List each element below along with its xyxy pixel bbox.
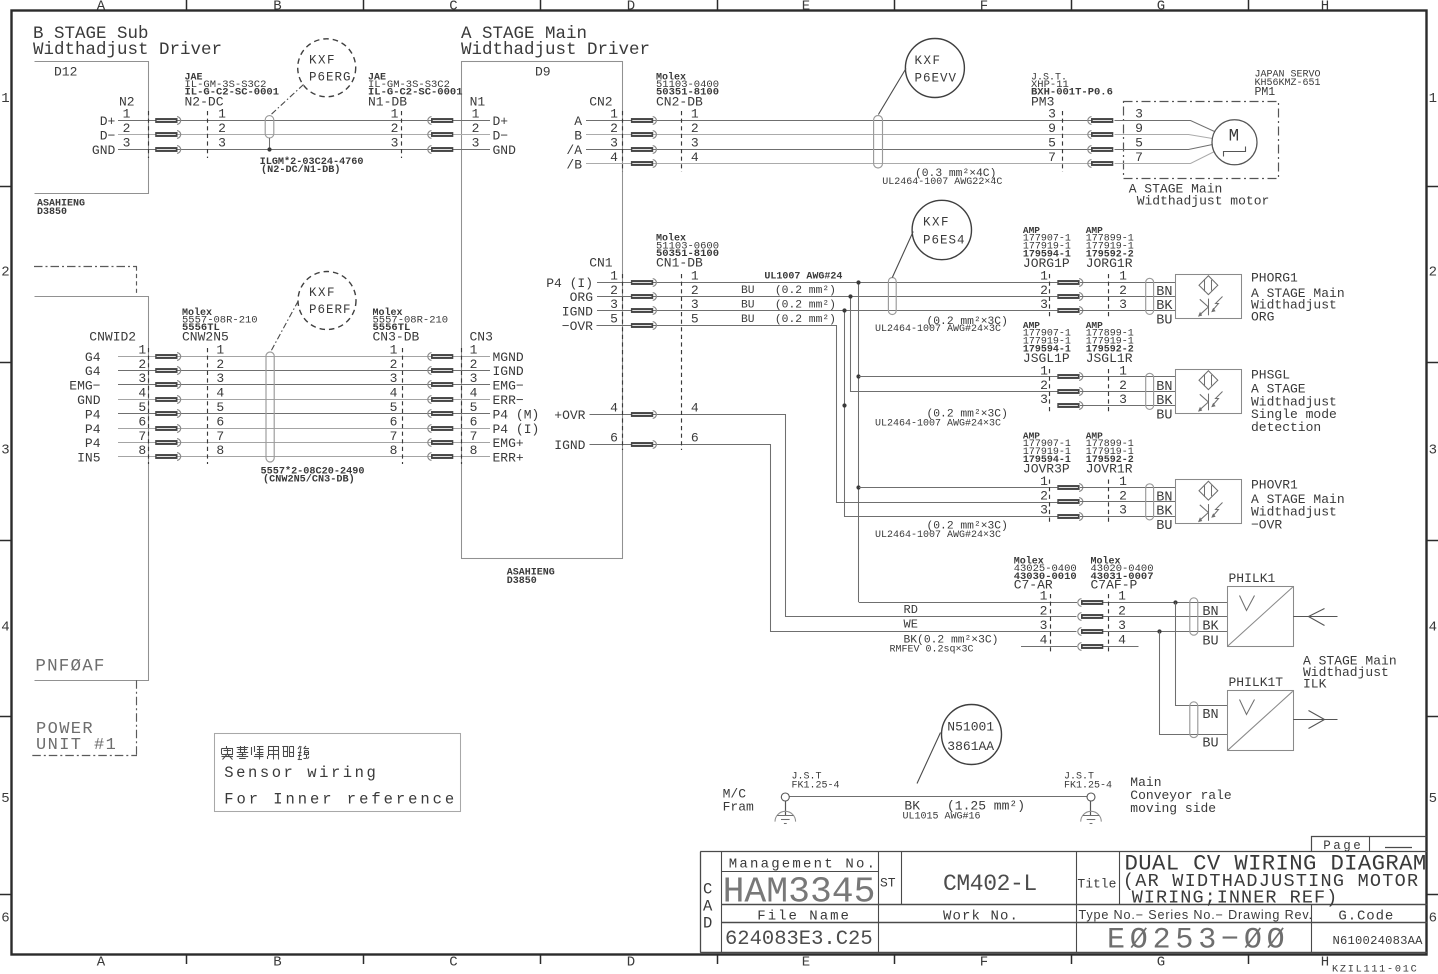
svg-text:7: 7 [216, 429, 224, 444]
wire CN1 pin4 +OVR down to C7-AR pin2 [590, 415, 1077, 617]
svg-text:1: 1 [691, 106, 699, 121]
svg-text:G: G [1157, 0, 1165, 14]
svg-text:/A: /A [566, 143, 582, 158]
arrow outgoing light from PHILK1T [1293, 711, 1337, 729]
svg-text:C7AF-P: C7AF-P [1091, 578, 1138, 593]
svg-text:4: 4 [610, 401, 618, 416]
page box [1312, 837, 1427, 853]
svg-text:2: 2 [123, 121, 131, 136]
cable spec (0.2mm2x3C) for ORG sensor cable [875, 316, 1008, 335]
svg-text:PHOVR1: PHOVR1 [1251, 478, 1298, 493]
svg-text:3: 3 [390, 371, 398, 386]
svg-text:D: D [627, 955, 635, 971]
svg-text:RMFEV 0.2sq×3C: RMFEV 0.2sq×3C [890, 645, 974, 656]
svg-text:CNWID2: CNWID2 [89, 330, 136, 345]
svg-text:(N2-DC/N1-DB): (N2-DC/N1-DB) [261, 164, 340, 176]
svg-text:ERR−: ERR− [493, 393, 524, 408]
pigtail capsule PHILK1 [1190, 598, 1198, 635]
svg-text:1: 1 [1119, 268, 1127, 283]
cable spec (0.3mm2x4C) UL2464-1007 AWG22x4C [882, 168, 1002, 188]
svg-text:3: 3 [691, 136, 699, 151]
balloon KXF P6EVV [878, 39, 964, 115]
svg-text:6: 6 [1429, 911, 1437, 927]
connector C7AF-P (Molex 43020-0400 43031-0007) [1091, 556, 1154, 655]
svg-text:4: 4 [216, 386, 224, 401]
label PHOVR1 A STAGE Main Widthadjust -OVR [1251, 478, 1345, 533]
title block [700, 852, 1427, 953]
svg-text:B: B [273, 955, 281, 971]
wire CN1 pin6 IGND down to C7-AR pin3 [590, 445, 1077, 632]
svg-text:D12: D12 [54, 65, 77, 80]
svg-text:5: 5 [691, 312, 699, 327]
svg-text:D+: D+ [493, 114, 509, 129]
svg-text:Widthadjust Driver: Widthadjust Driver [33, 40, 222, 60]
svg-text:1: 1 [1118, 589, 1126, 604]
svg-text:CM402-L: CM402-L [943, 871, 1037, 897]
svg-text:4: 4 [691, 401, 699, 416]
svg-text:2: 2 [1040, 603, 1048, 618]
svg-text:P4 (I): P4 (I) [493, 422, 540, 437]
svg-text:6: 6 [138, 414, 146, 429]
svg-text:ERR+: ERR+ [493, 451, 524, 466]
balloon KXF P6ES4 [892, 200, 971, 277]
svg-text:B: B [574, 128, 582, 143]
svg-text:WE: WE [904, 618, 918, 632]
svg-text:P4: P4 [85, 422, 101, 437]
svg-text:N51001: N51001 [947, 720, 994, 735]
sensor pigtail capsule JSGL1R [1146, 373, 1154, 409]
wire CNWID2 pin8 IN5 to CN3 pin8 ERR+ [118, 456, 490, 458]
shield drain junction to GND wire [267, 138, 271, 152]
ground symbol M/C frame [775, 801, 796, 824]
svg-text:G4: G4 [85, 350, 101, 365]
svg-text:PHORG1: PHORG1 [1251, 271, 1298, 286]
svg-text:H: H [1321, 0, 1329, 14]
svg-text:File Name: File Name [757, 909, 851, 925]
wire colors BN BU into PHILK1T [1202, 708, 1218, 752]
svg-text:3: 3 [1040, 392, 1048, 407]
wire CN1 pin3 IGND to JORG1P pin3 [597, 310, 1057, 312]
svg-text:FK1.25-4: FK1.25-4 [792, 781, 840, 792]
shield capsule on sensor cable CN1/JORG [888, 278, 896, 315]
svg-text:EMG−: EMG− [493, 379, 524, 394]
wire labels RD WE BK on C7 harness [890, 603, 999, 656]
svg-text:BK: BK [1202, 620, 1219, 635]
label PHORG1 A STAGE Main Widthadjust ORG [1251, 271, 1345, 325]
connector CN3 pins on D9 [470, 330, 540, 466]
svg-text:P6ERF: P6ERF [309, 303, 352, 317]
balloon KXF P6ERG [270, 39, 356, 116]
svg-text:2: 2 [1119, 378, 1127, 393]
svg-text:4: 4 [1, 620, 9, 636]
svg-text:KXF: KXF [923, 216, 950, 230]
svg-text:7: 7 [138, 429, 146, 444]
svg-text:BN: BN [1156, 285, 1172, 300]
svg-text:IGND: IGND [562, 305, 593, 320]
svg-text:UL2464-1007 AWG#24×3C: UL2464-1007 AWG#24×3C [875, 324, 1001, 335]
svg-text:3: 3 [1118, 618, 1126, 633]
svg-text:3: 3 [216, 371, 224, 386]
wire CN1 pin2 ORG to JORG1P pin2 [597, 296, 1057, 298]
svg-text:GND: GND [77, 393, 101, 408]
svg-text:1: 1 [610, 268, 618, 283]
note box: sensor wiring for inner reference [215, 734, 461, 812]
sensor pigtail capsule JORG1R [1146, 278, 1154, 314]
svg-text:1: 1 [218, 106, 226, 121]
svg-text:5: 5 [216, 400, 224, 415]
svg-text:P4 (M): P4 (M) [493, 407, 540, 422]
svg-text:BU (0.2 mm²): BU (0.2 mm²) [741, 285, 836, 297]
svg-text:BK: BK [1156, 299, 1173, 314]
svg-text:BU: BU [1156, 519, 1172, 534]
cable spec (0.2mm2x3C) for SGL sensor cable [875, 409, 1008, 430]
svg-text:1: 1 [1119, 474, 1127, 489]
svg-text:1: 1 [610, 106, 618, 121]
svg-text:2: 2 [610, 121, 618, 136]
svg-text:BK: BK [1156, 394, 1173, 409]
svg-text:2: 2 [1118, 603, 1126, 618]
svg-text:Fram: Fram [723, 800, 754, 815]
cable label 5557*2-08C20-2490 (CNW2N5/CN3-DB) [261, 466, 365, 486]
svg-text:Title: Title [1077, 877, 1116, 892]
svg-text:4: 4 [138, 386, 146, 401]
svg-text:PM1: PM1 [1255, 86, 1276, 99]
svg-text:5: 5 [470, 400, 478, 415]
svg-text:BU: BU [1156, 314, 1172, 329]
connector N1-DB (JAE IL-GM-3S-S3C2 IL-G-C2-SC-0001) [368, 73, 463, 159]
branch wire ORG vertical to JSGL1P pin2 [848, 294, 1057, 391]
wire C7 pin2 RD/BK to PHILK1 [1103, 616, 1228, 618]
svg-text:3: 3 [610, 297, 618, 312]
svg-text:N610024083AA: N610024083AA [1333, 934, 1424, 948]
svg-text:G.Code: G.Code [1338, 909, 1394, 925]
svg-text:BU (0.2 mm²): BU (0.2 mm²) [741, 314, 836, 326]
svg-text:A: A [97, 955, 106, 971]
svg-text:BU: BU [1156, 409, 1172, 424]
label M/C Fram [723, 787, 754, 815]
svg-text:M: M [1229, 126, 1240, 146]
svg-text:BU (0.2 mm²): BU (0.2 mm²) [741, 300, 836, 312]
connector CNWID2 pins on PNF0AF [69, 330, 146, 466]
svg-text:7: 7 [1048, 150, 1056, 165]
svg-text:UL2464-1007 AWG#24×3C: UL2464-1007 AWG#24×3C [875, 419, 1001, 430]
photo interlock sensor PHILK1 [1228, 571, 1294, 647]
svg-text:2: 2 [1119, 488, 1127, 503]
wire CN1 pin1 P4(I) to JORG1P pin1 [597, 282, 1057, 284]
svg-text:Widthadjust Driver: Widthadjust Driver [461, 40, 650, 60]
photo interlock sensor PHILK1T [1228, 675, 1294, 751]
svg-text:4: 4 [1118, 633, 1126, 648]
svg-text:7: 7 [1135, 150, 1143, 165]
svg-text:P4: P4 [85, 436, 101, 451]
svg-text:2: 2 [1040, 488, 1048, 503]
wire N2 pin2 D− to N1 pin2 [118, 134, 490, 136]
svg-text:3: 3 [1040, 503, 1048, 518]
balloon N51001 3861AA [917, 705, 1002, 784]
svg-text:E: E [802, 0, 810, 14]
svg-text:KXF: KXF [309, 286, 336, 300]
svg-text:PHSGL: PHSGL [1251, 368, 1290, 383]
label PHSGL A STAGE Widthadjust Single mode detection [1251, 368, 1337, 436]
svg-text:3861AA: 3861AA [947, 739, 994, 754]
svg-text:(CNW2N5/CN3-DB): (CNW2N5/CN3-DB) [263, 474, 355, 486]
svg-text:1: 1 [391, 106, 399, 121]
wire colors BN BK BU into sensor SGL [1156, 380, 1173, 424]
connector CN2-DB (Molex 51103-0400 50351-8100) [623, 72, 720, 173]
svg-text:F: F [980, 0, 988, 14]
svg-text:3: 3 [1119, 503, 1127, 518]
management no cell [723, 857, 878, 913]
ground symbol conveyor rail [1081, 801, 1102, 824]
svg-text:BN: BN [1202, 605, 1218, 620]
svg-text:3: 3 [1119, 297, 1127, 312]
connector CN2 pins on D9 [566, 95, 618, 173]
svg-text:EØ253−ØØ: EØ253−ØØ [1107, 924, 1289, 958]
wire CN2 pin2 B to PM3 pin9 [586, 134, 1091, 136]
wire CNWID2 pin1 G4 to CN3 pin1 MGND [118, 356, 490, 358]
svg-text:UL1015 AWG#16: UL1015 AWG#16 [903, 812, 981, 823]
svg-text:G4: G4 [85, 364, 101, 379]
svg-text:CN2: CN2 [589, 95, 612, 110]
label A STAGE Main Widthadjust motor [1129, 182, 1270, 209]
svg-text:N1-DB: N1-DB [368, 95, 407, 110]
connector N2 pins on D12 [92, 95, 135, 159]
svg-text:3: 3 [1040, 297, 1048, 312]
svg-text:4: 4 [610, 150, 618, 165]
svg-text:1: 1 [1119, 363, 1127, 378]
svg-text:3: 3 [472, 136, 480, 151]
svg-text:detection: detection [1251, 420, 1321, 435]
svg-text:PHILK1: PHILK1 [1229, 571, 1276, 586]
svg-text:1: 1 [1040, 589, 1048, 604]
balloon KXF P6ERF [271, 272, 357, 353]
svg-text:6: 6 [610, 430, 618, 445]
connector CN3-DB (Molex 5557-08R-210 5556TL) [373, 307, 462, 464]
svg-text:B: B [273, 0, 281, 14]
svg-text:−OVR: −OVR [562, 319, 593, 334]
connector JSGL1P (AMP 177907-1 177919-1 179594-1) [1023, 320, 1083, 414]
label A STAGE Main Widthadjust ILK [1303, 654, 1397, 692]
svg-text:E: E [802, 955, 810, 971]
svg-text:3: 3 [123, 136, 131, 151]
svg-text:A: A [97, 0, 106, 14]
svg-text:−OVR: −OVR [1251, 517, 1282, 532]
connector PM3 (J.S.T. XHP-11 BXH-001T-P0.6) [1031, 73, 1143, 173]
svg-text:4: 4 [1429, 620, 1437, 636]
svg-text:D3850: D3850 [507, 576, 537, 587]
svg-text:3: 3 [1048, 106, 1056, 121]
svg-text:1: 1 [1040, 474, 1048, 489]
svg-text:2: 2 [610, 283, 618, 298]
svg-text:BK: BK [1156, 505, 1173, 520]
svg-text:3: 3 [1040, 618, 1048, 633]
svg-text:PHILK1T: PHILK1T [1229, 675, 1284, 690]
svg-text:C: C [449, 955, 457, 971]
wire colors BN BK BU into PHILK1 [1202, 605, 1219, 650]
connector N2-DC (JAE IL-GM-3S-S3C2 IL-G-C2-SC-0001) [149, 73, 280, 159]
svg-text:3: 3 [218, 136, 226, 151]
svg-text:3: 3 [1135, 106, 1143, 121]
svg-text:6: 6 [691, 430, 699, 445]
branch wire IGND vertical to JSGL1P/JOVR3P pin3 [842, 308, 1057, 516]
svg-text:FK1.25-4: FK1.25-4 [1064, 781, 1112, 792]
svg-text:8: 8 [470, 443, 478, 458]
driver box D9 (A stage main widthadjust driver) [462, 62, 623, 588]
connector CNW2N5 (Molex 5557-08R-210 5556TL) [149, 307, 258, 464]
svg-text:1: 1 [123, 106, 131, 121]
svg-text:4: 4 [390, 386, 398, 401]
svg-text:2: 2 [1040, 378, 1048, 393]
svg-text:UL2464-1007 AWG22×4C: UL2464-1007 AWG22×4C [882, 177, 1002, 188]
svg-text:7: 7 [470, 429, 478, 444]
svg-text:1: 1 [1, 91, 9, 107]
svg-text:3: 3 [138, 371, 146, 386]
cable spec (0.2mm2x3C) for OVR sensor cable [875, 521, 1008, 542]
wire CNWID2 pin6 P4 to CN3 pin6 P4 (I) [118, 428, 490, 430]
svg-text:D: D [703, 915, 712, 933]
power unit box PNF0AF [34, 267, 149, 681]
svg-text:6: 6 [1, 911, 9, 927]
svg-text:H: H [1321, 955, 1329, 971]
svg-text:P4: P4 [85, 407, 101, 422]
svg-text:1: 1 [470, 342, 478, 357]
svg-text:BN: BN [1202, 708, 1218, 723]
svg-text:KXF: KXF [915, 54, 942, 68]
bus wire P4 vertical feeding JSGL1P/JOVR3P/C7-AR pin1 [856, 280, 1077, 602]
arrow incoming light to PHILK1 [1293, 609, 1337, 626]
wire CNWID2 pin5 P4 to CN3 pin5 P4 (M) [118, 413, 490, 415]
svg-text:624083E3.C25: 624083E3.C25 [725, 928, 873, 951]
wire CN2 pin1 A to PM3 pin3 [586, 120, 1091, 122]
label JAPAN SERVO KH56KMZ-651 PM1 [1255, 70, 1321, 100]
svg-text:UNIT #1: UNIT #1 [36, 736, 117, 755]
svg-text:P4 (I): P4 (I) [546, 276, 593, 291]
svg-text:Widthadjust motor: Widthadjust motor [1137, 194, 1270, 209]
svg-text:D−: D− [493, 128, 509, 143]
driver box D12 (B stage sub widthadjust driver) [35, 62, 149, 219]
connector JSGL1R (AMP 177899-1 177919-1 179592-2) [1080, 320, 1176, 414]
svg-text:+OVR: +OVR [554, 408, 585, 423]
power unit #1 boundary (dash-dot) [32, 680, 137, 755]
connector JORG1R (AMP 177899-1 177919-1 179592-2) [1080, 225, 1176, 319]
svg-text:A: A [574, 114, 582, 129]
svg-text:D: D [627, 0, 635, 14]
svg-text:5: 5 [1429, 791, 1437, 807]
svg-text:MGND: MGND [493, 350, 524, 365]
photo sensor PHOVR1 box [1176, 480, 1242, 524]
svg-text:5: 5 [610, 312, 618, 327]
wire C7 pin3 WE/BU to PHILK1 [1103, 631, 1228, 633]
svg-text:D−: D− [100, 128, 116, 143]
svg-text:ORG: ORG [1251, 309, 1274, 324]
connector CN1 pins on D9 [546, 256, 618, 453]
svg-text:BU: BU [1202, 736, 1218, 751]
wire colors BN BK BU into sensor OVR [1156, 490, 1173, 534]
svg-text:4: 4 [691, 150, 699, 165]
svg-text:WIRING;INNER REF): WIRING;INNER REF) [1132, 888, 1339, 909]
svg-text:EMG+: EMG+ [493, 436, 524, 451]
svg-text:3: 3 [1429, 443, 1437, 459]
svg-text:6: 6 [216, 414, 224, 429]
G.Code cell [1333, 909, 1424, 949]
svg-text:KZIL111-01C: KZIL111-01C [1332, 964, 1419, 974]
svg-text:2: 2 [1119, 283, 1127, 298]
wire colors BN BK BU into sensor ORG [1156, 285, 1173, 329]
svg-text:UL1007 AWG#24: UL1007 AWG#24 [764, 272, 842, 283]
svg-text:D+: D+ [100, 114, 116, 129]
svg-text:IGND: IGND [554, 438, 585, 453]
wire JOVR3P pin1 from P4 bus [859, 487, 1057, 489]
svg-text:7: 7 [390, 429, 398, 444]
svg-text:EMG−: EMG− [69, 379, 100, 394]
svg-text:2: 2 [216, 357, 224, 372]
label B STAGE Sub Widthadjust Driver [33, 24, 222, 60]
svg-text:UL2464-1007 AWG#24×3C: UL2464-1007 AWG#24×3C [875, 530, 1001, 541]
svg-text:2: 2 [691, 283, 699, 298]
svg-text:HAM3345: HAM3345 [723, 872, 876, 913]
svg-text:BN: BN [1156, 380, 1172, 395]
cable label ILGM*2-03C24-4760 (N2-DC/N1-DB) [260, 156, 364, 176]
svg-text:1: 1 [1040, 363, 1048, 378]
svg-text:2: 2 [391, 121, 399, 136]
svg-text:5: 5 [138, 400, 146, 415]
svg-text:IGND: IGND [493, 364, 524, 379]
svg-text:1: 1 [390, 342, 398, 357]
junction BU wire to PHILK1T [1157, 629, 1227, 734]
wire CNWID2 pin4 GND to CN3 pin4 ERR− [118, 399, 490, 401]
shield capsule on cable N2-DC/N1-DB [265, 116, 274, 138]
file name cell [725, 909, 873, 952]
photo sensor PHSGL box [1176, 370, 1242, 414]
svg-text:BN: BN [1156, 490, 1172, 505]
svg-text:P6ERG: P6ERG [309, 71, 352, 85]
connector JORG1P (AMP 177907-1 177919-1 179594-1) [1023, 225, 1083, 319]
svg-text:6: 6 [470, 414, 478, 429]
photo sensor PHORG1 box [1176, 275, 1242, 319]
svg-text:1: 1 [138, 342, 146, 357]
svg-text:8: 8 [390, 443, 398, 458]
svg-text:3: 3 [391, 136, 399, 151]
wire CNWID2 pin7 P4 to CN3 pin7 EMG+ [118, 442, 490, 444]
svg-text:D3850: D3850 [37, 207, 67, 218]
svg-text:9: 9 [1048, 121, 1056, 136]
svg-text:D9: D9 [535, 65, 551, 80]
svg-text:6: 6 [390, 414, 398, 429]
svg-text:2: 2 [1040, 283, 1048, 298]
svg-text:1: 1 [472, 106, 480, 121]
wire C7 pin4 stub [1021, 646, 1139, 648]
svg-text:9: 9 [1135, 121, 1143, 136]
motor lead wires into motor [1115, 121, 1215, 164]
bonding wire M/C frame to conveyor rail [790, 796, 1088, 798]
svg-text:Type No.− Series No.− Drawing: Type No.− Series No.− Drawing Rev. [1079, 908, 1313, 922]
svg-text:BU: BU [1202, 635, 1218, 650]
svg-text:3: 3 [470, 371, 478, 386]
svg-text:2: 2 [390, 357, 398, 372]
svg-text:/B: /B [566, 158, 582, 173]
svg-text:moving side: moving side [1130, 801, 1216, 816]
wire spec BK (1.25mm2) UL1015 AWG#16 [903, 799, 1026, 823]
connector JOVR3P (AMP 177907-1 177919-1 179594-1) [1023, 431, 1083, 525]
shield capsule on cable CNW2N5/CN3-DB [266, 352, 274, 462]
svg-text:RD: RD [904, 603, 918, 617]
svg-text:8: 8 [216, 443, 224, 458]
kanji note (sensor reference wiring) [222, 746, 310, 760]
CAD vertical label [703, 881, 713, 933]
svg-text:2: 2 [1, 265, 9, 281]
svg-text:KXF: KXF [309, 54, 336, 68]
wire N2 pin1 D+ to N1 pin1 [118, 120, 490, 122]
